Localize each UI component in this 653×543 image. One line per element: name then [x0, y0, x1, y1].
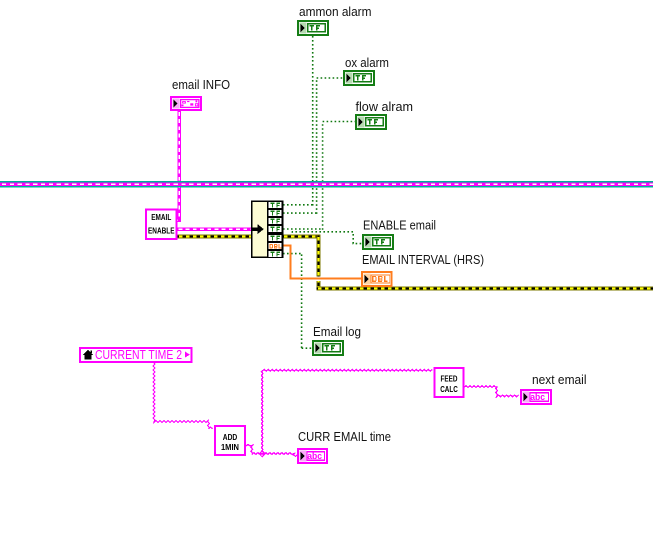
svg-text:EMAIL: EMAIL [151, 213, 171, 222]
svg-text:CURRENT TIME 2: CURRENT TIME 2 [95, 347, 182, 362]
svg-text:ammon alarm: ammon alarm [299, 4, 372, 19]
svg-text:EMAIL INTERVAL (HRS): EMAIL INTERVAL (HRS) [362, 252, 484, 267]
indicator flow alram (TF boolean) [356, 115, 386, 129]
indicator ox alarm (TF boolean) [344, 71, 374, 85]
svg-text:CURR EMAIL time: CURR EMAIL time [298, 429, 391, 444]
wire unbundle TF2 to ox alarm (boolean dotted) [283, 78, 343, 214]
indicator Email log (TF boolean) [313, 341, 343, 355]
svg-text:CALC: CALC [440, 385, 458, 394]
wire unbundle TF5 to ENABLE email (boolean dotted) [283, 232, 363, 244]
indicator CURR EMAIL time (string abc) [298, 449, 327, 463]
subVI FEED CALC [435, 368, 464, 397]
svg-text:next email: next email [532, 372, 587, 387]
svg-text:ox alarm: ox alarm [345, 55, 389, 70]
indicator next email (string abc) [521, 390, 551, 404]
wire CURRENT TIME 2 to ADD 1MIN (string) [153, 362, 212, 429]
indicator ammon alarm (TF boolean) [298, 21, 328, 35]
wire unbundle TF1 to ammon alarm (boolean dotted) [283, 36, 313, 206]
wire junction up to FEED CALC (string) [261, 370, 432, 454]
svg-text:ADD: ADD [223, 433, 238, 442]
indicator ENABLE email (TF boolean) [363, 235, 393, 249]
svg-text:1MIN: 1MIN [221, 443, 239, 452]
svg-text:Email log: Email log [313, 324, 361, 339]
junction dot on string wire [259, 450, 266, 458]
svg-text:ENABLE email: ENABLE email [363, 218, 436, 233]
svg-text:FEED: FEED [441, 375, 458, 384]
wire error cluster from EMAIL ENABLE to right edge [178, 235, 653, 291]
wire large cluster trunk across page [0, 181, 653, 187]
subVI ADD 1MIN [215, 426, 245, 455]
unbundle by name node [252, 201, 283, 259]
svg-text:flow alram: flow alram [356, 99, 414, 114]
global variable CURRENT TIME 2 [80, 347, 192, 362]
wire EMAIL ENABLE output cluster to unbundle [178, 227, 253, 231]
wire unbundle TF7 to Email log (boolean dotted) [283, 254, 312, 349]
wire FEED CALC output to next email (string) [464, 386, 519, 397]
wire ADD 1MIN output to junction and CURR EMAIL time (string) [246, 444, 298, 456]
indicator EMAIL INTERVAL (HRS) (DBL numeric) [362, 272, 392, 286]
wire email INFO cluster to EMAIL ENABLE [175, 111, 182, 222]
subVI EMAIL ENABLE [146, 210, 177, 240]
svg-text:abc: abc [530, 392, 545, 402]
svg-text:ENABLE: ENABLE [148, 227, 175, 236]
wire unbundle TF4 to flow alram (boolean dotted) [283, 122, 355, 230]
control email INFO (cluster) [171, 97, 201, 110]
svg-text:email INFO: email INFO [172, 77, 230, 92]
wire unbundle DBL to EMAIL INTERVAL (orange numeric) [316, 277, 321, 281]
svg-text:abc: abc [307, 451, 322, 461]
